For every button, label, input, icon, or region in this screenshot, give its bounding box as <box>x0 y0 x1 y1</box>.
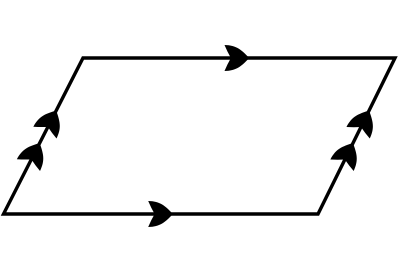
parallelogram ABCD outline <box>4 58 396 214</box>
arrow mark on top side AB <box>225 45 250 71</box>
arrow mark on bottom side DC <box>148 201 173 227</box>
lower arrow mark on right side CB <box>330 137 364 171</box>
lower arrow mark on left side DA <box>17 137 51 171</box>
upper arrow mark on left side DA <box>33 105 67 139</box>
upper arrow mark on right side CB <box>346 105 380 139</box>
